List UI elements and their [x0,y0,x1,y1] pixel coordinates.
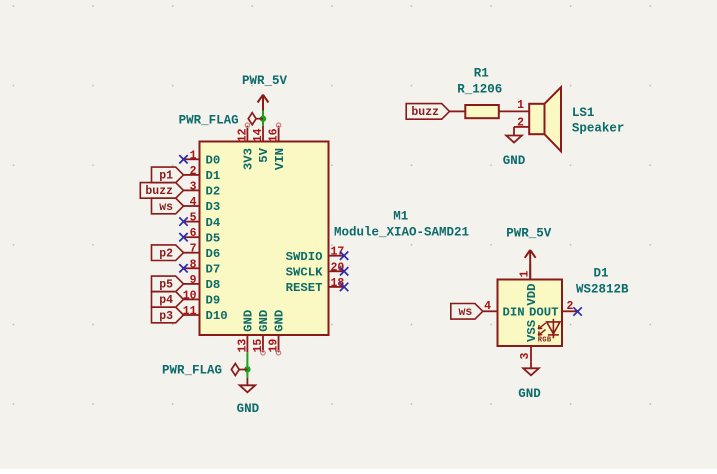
svg-text:ws: ws [159,201,173,214]
svg-text:GND: GND [503,154,526,168]
svg-text:D1: D1 [594,267,609,281]
svg-text:D6: D6 [206,247,221,261]
svg-text:2: 2 [567,300,574,313]
svg-text:buzz: buzz [411,106,439,119]
svg-text:D1: D1 [206,169,221,183]
svg-text:1: 1 [517,99,524,112]
svg-text:4: 4 [190,196,197,209]
svg-text:GND: GND [257,310,271,332]
svg-text:GND: GND [242,310,256,332]
svg-text:RGB: RGB [538,337,552,345]
svg-text:buzz: buzz [145,185,173,198]
svg-text:LS1: LS1 [572,106,595,120]
svg-text:PWR_5V: PWR_5V [242,74,288,88]
svg-text:6: 6 [190,227,197,240]
svg-text:3V3: 3V3 [242,148,256,170]
svg-text:RESET: RESET [286,281,324,295]
svg-text:D0: D0 [206,154,221,168]
svg-text:16: 16 [268,128,281,142]
svg-text:PWR_FLAG: PWR_FLAG [162,364,222,378]
svg-text:D10: D10 [206,309,228,323]
svg-text:GND: GND [518,387,541,401]
svg-text:p4: p4 [159,294,173,307]
svg-text:D9: D9 [206,294,221,308]
svg-text:p3: p3 [159,310,173,323]
svg-text:D2: D2 [206,185,221,199]
svg-text:WS2812B: WS2812B [576,283,629,297]
svg-text:DIN: DIN [503,306,525,320]
svg-text:M1: M1 [393,210,408,224]
svg-text:PWR_5V: PWR_5V [506,227,552,241]
svg-text:ws: ws [458,306,472,319]
svg-text:GND: GND [273,310,287,332]
svg-text:p1: p1 [159,170,173,183]
svg-text:2: 2 [190,165,197,178]
svg-text:D8: D8 [206,278,221,292]
svg-text:1: 1 [190,149,197,162]
svg-text:8: 8 [190,258,197,271]
svg-text:5V: 5V [257,147,271,162]
svg-text:12: 12 [236,128,249,142]
svg-text:13: 13 [236,339,249,353]
svg-text:p2: p2 [159,248,173,261]
svg-text:R1: R1 [474,67,489,81]
svg-text:SWCLK: SWCLK [286,266,324,280]
svg-text:PWR_FLAG: PWR_FLAG [179,114,239,128]
svg-text:5: 5 [190,212,197,225]
svg-text:R_1206: R_1206 [457,83,502,97]
svg-text:3: 3 [190,180,197,193]
svg-text:D7: D7 [206,263,221,277]
svg-text:9: 9 [190,274,197,287]
svg-text:SWDIO: SWDIO [286,250,323,264]
svg-text:DOUT: DOUT [529,306,559,320]
svg-text:3: 3 [519,353,532,360]
svg-text:Module_XIAO-SAMD21: Module_XIAO-SAMD21 [334,226,469,240]
svg-text:D5: D5 [206,231,221,245]
svg-text:GND: GND [237,402,260,416]
svg-text:11: 11 [183,305,197,318]
svg-text:VIN: VIN [273,148,287,170]
svg-text:10: 10 [183,289,197,302]
svg-text:7: 7 [190,243,197,256]
svg-text:D3: D3 [206,200,221,214]
svg-text:14: 14 [252,128,265,142]
svg-text:Speaker: Speaker [572,122,625,136]
svg-text:p5: p5 [159,279,173,292]
svg-text:4: 4 [484,300,491,313]
svg-text:VDD: VDD [525,284,539,306]
svg-text:D4: D4 [206,216,221,230]
svg-text:1: 1 [518,271,531,278]
